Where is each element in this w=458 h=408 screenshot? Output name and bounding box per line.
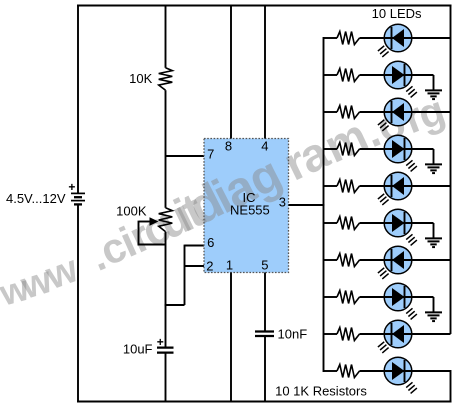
svg-text:10K: 10K	[129, 71, 152, 86]
LED D6	[360, 209, 434, 245]
wire 10K to pot	[165, 90, 167, 208]
wire node to x165 branch	[165, 304, 185, 306]
ground row 6	[425, 238, 442, 247]
svg-text:8: 8	[225, 139, 232, 154]
wire row 4 down to ground	[433, 149, 435, 164]
svg-text:4.5V...12V: 4.5V...12V	[6, 191, 66, 206]
wire wiper to bottom of pot	[138, 221, 140, 245]
resistor 1K row 9	[337, 328, 360, 341]
resistor 1K row 4	[337, 143, 360, 156]
wire C2 to ground rail	[264, 336, 266, 402]
wire row 3 stub from rail	[324, 111, 338, 113]
op-amp timer U1 IC NE555 body fill	[204, 139, 289, 273]
capacitor C2 10nF	[255, 330, 274, 332]
wire row 8 down to ground	[433, 297, 435, 312]
wire row 9 stub from rail	[324, 333, 338, 335]
wire top +V rail	[77, 5, 452, 7]
resistor 1K row 1	[337, 32, 360, 45]
wire pin7 stub	[166, 155, 205, 157]
potentiometer P1 100K element	[159, 208, 173, 232]
capacitor C1 10uF polarized	[157, 347, 174, 349]
wire pin4 to +V	[264, 6, 266, 139]
LED D5	[360, 172, 451, 205]
svg-text:10 LEDs: 10 LEDs	[372, 6, 422, 21]
wire left rail lower	[77, 204, 79, 402]
wire row 5 stub from rail	[324, 185, 338, 187]
resistor 1K row 7	[337, 254, 360, 267]
wire left rail upper	[77, 5, 79, 194]
svg-text:10nF: 10nF	[278, 327, 308, 342]
ground row 2	[425, 90, 442, 99]
wire row 7 stub from rail	[324, 259, 338, 261]
svg-text:1: 1	[226, 257, 233, 272]
wire row 6 stub from rail	[324, 222, 338, 224]
resistor R1 10K	[159, 68, 173, 90]
wire row 2 stub from rail	[324, 74, 338, 76]
wire row 8 stub from rail	[324, 296, 338, 298]
battery B1 4.5V...12V	[71, 192, 85, 194]
svg-text:+: +	[157, 335, 164, 349]
resistor 1K row 10	[337, 365, 360, 378]
wire top to R 10K	[165, 5, 167, 68]
wire pin1 to ground	[230, 273, 232, 402]
wire right bottom segment row10 to ground rail	[450, 370, 452, 402]
svg-text:2: 2	[206, 259, 213, 274]
resistor 1K row 6	[337, 217, 360, 230]
ground row 4	[425, 164, 442, 173]
svg-text:10 1K Resistors: 10 1K Resistors	[275, 383, 367, 398]
wire pin5 to C2	[264, 273, 266, 332]
svg-text:10uF: 10uF	[123, 341, 153, 356]
svg-text:NE555: NE555	[230, 203, 270, 218]
LED D3	[360, 98, 451, 131]
wire row 10 stub from rail	[324, 370, 338, 372]
svg-text:100K: 100K	[116, 203, 147, 218]
svg-text:5: 5	[261, 257, 268, 272]
ground row 8	[425, 312, 442, 321]
wire pin3 to LED ladder	[289, 204, 325, 206]
resistor 1K row 8	[337, 291, 360, 304]
LED D7	[360, 246, 451, 279]
wire row 6 down to ground	[433, 223, 435, 238]
svg-text:6: 6	[207, 235, 214, 250]
LED D10	[360, 357, 451, 393]
resistor 1K row 5	[337, 180, 360, 193]
wire pin6 stub	[185, 245, 205, 247]
wire bottom ground rail	[77, 401, 452, 403]
op-amp timer U1 IC NE555 outline	[204, 139, 289, 273]
svg-text:+: +	[68, 180, 75, 194]
wire pin2 stub	[185, 265, 205, 267]
LED D4	[360, 135, 434, 171]
svg-text:7: 7	[207, 147, 214, 162]
wire row 4 stub from rail	[324, 148, 338, 150]
LED D1	[360, 24, 451, 57]
wire row 2 down to ground	[433, 75, 435, 90]
resistor 1K row 3	[337, 106, 360, 119]
potentiometer wiper arrow	[139, 221, 151, 223]
svg-text:3: 3	[279, 195, 286, 210]
wire pin6-pin2 tie down to node	[184, 245, 186, 305]
wire 10uF to ground rail	[165, 353, 167, 402]
resistor 1K row 2	[337, 69, 360, 82]
LED D9	[360, 320, 451, 353]
wire pin8 to +V	[230, 6, 232, 139]
wire row 1 stub from rail	[324, 37, 338, 39]
wire right +V rail	[450, 5, 452, 335]
wire pot to 10uF	[165, 232, 167, 347]
wire LED ladder left rail	[323, 37, 325, 372]
LED D2	[360, 61, 434, 97]
LED D8	[360, 283, 434, 319]
svg-text:4: 4	[261, 139, 268, 154]
